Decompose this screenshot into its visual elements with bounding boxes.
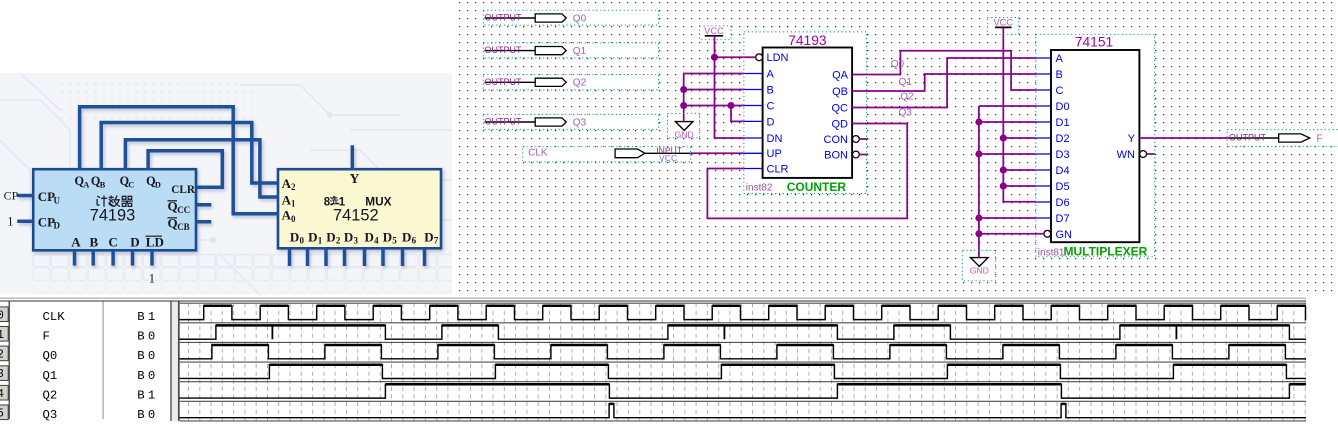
svg-text:VCC: VCC [993,18,1013,28]
svg-text:CB: CB [177,222,190,232]
svg-text:D: D [326,229,335,244]
svg-text:B: B [137,388,144,402]
svg-text:D: D [308,229,317,244]
svg-text:Y: Y [1128,133,1136,145]
svg-text:0: 0 [0,309,4,322]
svg-text:6: 6 [412,236,417,246]
svg-text:74152: 74152 [333,207,379,225]
svg-text:1: 1 [148,310,155,324]
svg-text:Q3: Q3 [43,408,58,422]
svg-text:1: 1 [0,329,4,342]
svg-text:D1: D1 [1056,117,1070,129]
svg-text:COUNTER: COUNTER [787,180,847,194]
svg-text:4: 4 [0,388,4,401]
svg-text:Q2: Q2 [43,388,58,402]
svg-text:D: D [344,229,353,244]
svg-text:74193: 74193 [788,33,827,48]
svg-text:CLR: CLR [171,184,196,196]
svg-text:OUTPUT: OUTPUT [485,77,523,87]
svg-text:5: 5 [0,407,4,420]
svg-text:D: D [767,116,775,128]
svg-text:Q1: Q1 [899,77,913,88]
svg-text:Q3: Q3 [899,108,913,119]
svg-text:CON: CON [824,134,849,146]
svg-text:7: 7 [434,236,439,246]
svg-text:CLR: CLR [767,163,789,175]
svg-text:VCC: VCC [704,26,724,36]
svg-text:C: C [108,234,117,249]
svg-text:QC: QC [832,102,849,114]
svg-text:inst82: inst82 [746,182,773,193]
svg-text:GND: GND [970,266,989,276]
svg-text:C: C [1056,85,1064,97]
svg-text:Q0: Q0 [43,349,58,363]
svg-text:1: 1 [149,271,155,285]
svg-text:74151: 74151 [1075,34,1113,49]
svg-text:1: 1 [7,214,13,228]
svg-text:D: D [365,229,374,244]
svg-text:D: D [54,221,61,231]
svg-text:B: B [137,330,144,344]
svg-text:D: D [402,229,411,244]
svg-text:CLK: CLK [528,148,548,159]
svg-text:C: C [128,179,134,189]
svg-text:D4: D4 [1056,165,1070,177]
svg-text:A: A [83,179,90,189]
svg-text:U: U [54,196,61,206]
svg-text:QA: QA [832,69,849,81]
svg-text:3: 3 [354,236,359,246]
svg-text:0: 0 [291,214,296,224]
svg-text:2: 2 [291,182,296,192]
svg-text:F: F [43,330,50,344]
svg-text:2: 2 [336,236,341,246]
svg-text:C: C [767,100,775,112]
svg-text:Y: Y [350,171,360,186]
svg-text:8: 8 [324,196,331,208]
svg-text:OUTPUT: OUTPUT [1229,133,1267,143]
svg-text:Q2: Q2 [573,78,587,89]
svg-text:LDN: LDN [767,52,789,64]
svg-text:B: B [137,369,144,383]
svg-text:D: D [383,229,392,244]
svg-text:0: 0 [148,369,155,383]
svg-text:B: B [137,408,144,422]
svg-text:Q1: Q1 [43,369,58,383]
svg-text:D5: D5 [1056,181,1070,193]
svg-text:D2: D2 [1056,133,1070,145]
svg-text:GN: GN [1056,229,1073,241]
svg-text:CP: CP [38,189,55,204]
svg-text:0: 0 [148,330,155,344]
svg-text:74193: 74193 [90,207,136,225]
svg-text:CLK: CLK [43,310,66,324]
svg-text:0: 0 [148,408,155,422]
svg-text:B: B [1056,69,1063,81]
svg-text:0: 0 [300,236,305,246]
svg-text:Q0: Q0 [891,59,905,70]
svg-text:1: 1 [148,388,155,402]
svg-text:D: D [424,229,433,244]
svg-text:1: 1 [318,236,323,246]
svg-text:Q0: Q0 [573,13,587,24]
svg-text:F: F [1317,133,1323,144]
svg-text:A: A [1056,53,1064,65]
svg-text:D0: D0 [1056,101,1070,113]
svg-text:B: B [90,234,99,249]
svg-text:D6: D6 [1056,197,1070,209]
svg-text:4: 4 [374,236,379,246]
svg-text:OUTPUT: OUTPUT [485,45,523,55]
svg-text:CP: CP [38,214,55,229]
svg-text:D: D [130,234,139,249]
svg-text:WN: WN [1117,149,1135,161]
svg-text:1: 1 [291,199,296,209]
svg-text:D3: D3 [1056,149,1070,161]
svg-text:QB: QB [832,86,848,98]
svg-text:A: A [71,234,81,249]
svg-text:Q1: Q1 [573,46,587,57]
svg-text:Q3: Q3 [573,117,587,128]
svg-text:B: B [100,179,106,189]
svg-text:5: 5 [392,236,397,246]
svg-text:UP: UP [767,148,782,160]
svg-text:Q2: Q2 [900,92,914,103]
svg-text:3: 3 [0,368,4,381]
svg-text:D: D [290,229,299,244]
svg-text:DN: DN [767,133,783,145]
svg-text:0: 0 [148,349,155,363]
svg-text:B: B [767,84,774,96]
svg-text:D7: D7 [1056,213,1070,225]
svg-text:2: 2 [0,349,4,362]
svg-text:CP: CP [4,189,19,203]
svg-text:B: B [137,310,144,324]
svg-text:A: A [767,68,775,80]
svg-text:OUTPUT: OUTPUT [485,117,523,127]
svg-text:OUTPUT: OUTPUT [485,13,523,23]
svg-text:D: D [155,179,161,189]
svg-text:BON: BON [824,149,848,161]
svg-text:CC: CC [177,205,190,215]
svg-text:B: B [137,349,144,363]
svg-text:QD: QD [832,118,849,130]
